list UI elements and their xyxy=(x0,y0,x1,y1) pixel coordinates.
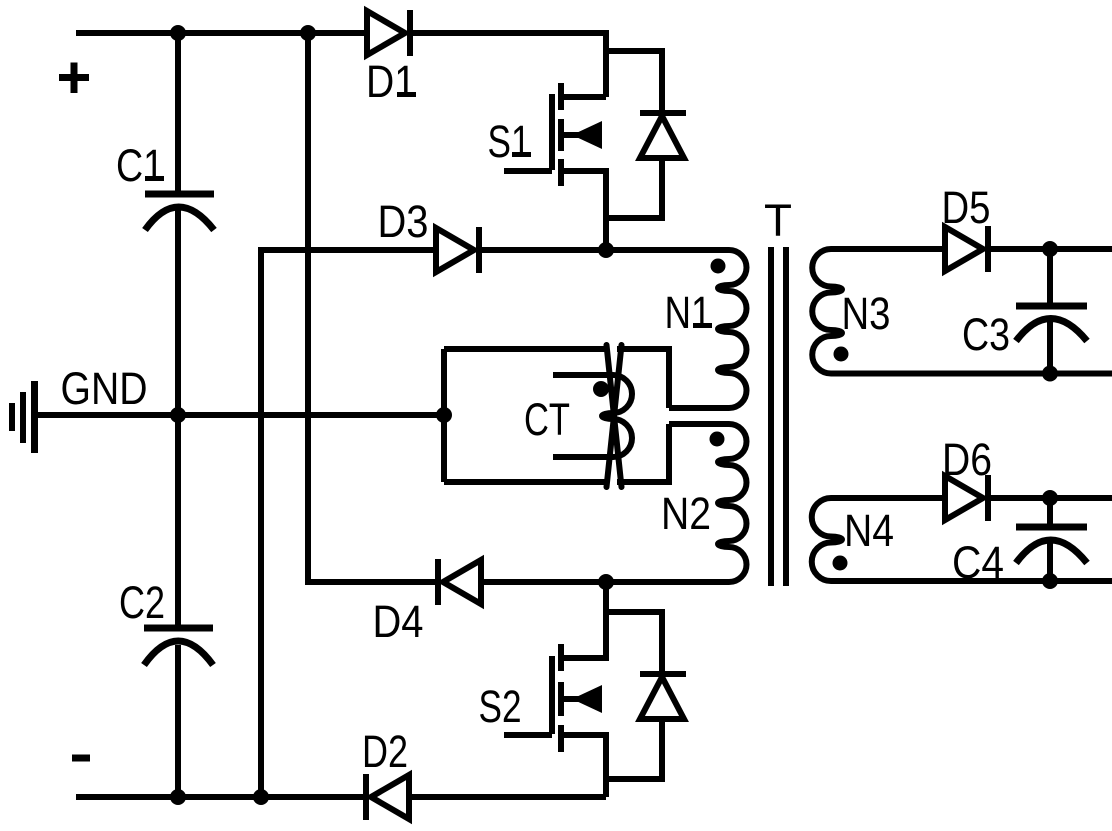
svg-text:N2: N2 xyxy=(661,488,711,539)
node junction S1 source / N1 top xyxy=(598,242,614,258)
wire D4 anode to N2/S2 node xyxy=(481,579,606,585)
node junction top rail at x308 xyxy=(300,25,316,41)
node N1 polarity dot xyxy=(711,259,726,274)
diode S1 body diode xyxy=(606,51,686,218)
node N2 polarity dot xyxy=(710,432,725,447)
node CT polarity dot xyxy=(593,381,609,397)
inductor N4 secondary winding xyxy=(812,498,1112,581)
node junction GND rail at C1/C2 xyxy=(170,407,186,423)
svg-text:S2: S2 xyxy=(479,681,522,732)
inductor CT secondary winding xyxy=(553,375,632,457)
wire bottom rail right xyxy=(409,794,606,800)
inductor N1 primary winding xyxy=(606,250,747,408)
wire N3 top lead xyxy=(831,246,944,252)
svg-text:D2: D2 xyxy=(362,726,408,777)
svg-text:S1: S1 xyxy=(488,116,531,167)
svg-text:GND: GND xyxy=(61,363,148,414)
svg-text:C1: C1 xyxy=(116,140,164,191)
capacitor C1 xyxy=(116,33,214,415)
node N4 polarity dot xyxy=(833,556,848,571)
wire vertical x308 top rail to D4 xyxy=(308,33,435,582)
svg-text:C4: C4 xyxy=(952,537,1004,588)
ground symbol xyxy=(12,381,35,453)
svg-text:C3: C3 xyxy=(962,309,1010,360)
diode D1 xyxy=(366,10,416,107)
plus terminal xyxy=(59,63,89,94)
svg-text:D1: D1 xyxy=(366,56,416,107)
svg-text:CT: CT xyxy=(524,394,570,445)
svg-text:D6: D6 xyxy=(942,434,992,485)
wire top rail to S1 drain xyxy=(410,33,606,97)
node junction C3 bottom xyxy=(1042,366,1058,382)
svg-text:N4: N4 xyxy=(844,505,894,556)
node junction top rail at C1 xyxy=(170,25,186,41)
transformer T core xyxy=(764,195,792,586)
transistor S2 xyxy=(479,582,607,797)
svg-text:D4: D4 xyxy=(373,596,424,647)
diode D6 xyxy=(942,434,992,521)
capacitor C2 xyxy=(119,415,213,797)
svg-text:N1: N1 xyxy=(665,287,712,338)
svg-text:D5: D5 xyxy=(942,182,991,233)
wire CT crossing B xyxy=(607,345,622,487)
wire bottom rail left xyxy=(76,794,363,800)
diode D4 xyxy=(373,559,482,647)
capacitor C3 xyxy=(962,249,1087,374)
diode D2 xyxy=(362,726,409,820)
node junction C3 top xyxy=(1042,241,1058,257)
node junction C4 top xyxy=(1042,490,1058,506)
wire top positive rail xyxy=(76,30,367,36)
node junction bottom rail at C2 xyxy=(170,789,186,805)
diode D5 xyxy=(942,182,991,272)
wire CT right loop lower xyxy=(617,424,669,482)
diode S2 body diode xyxy=(606,612,686,779)
wire D6 cathode to right edge xyxy=(988,495,1112,501)
wire D5 cathode to right edge xyxy=(988,246,1112,252)
inductor N2 primary winding xyxy=(606,424,747,582)
node junction N2 bottom / S2 drain / D4 xyxy=(598,574,614,590)
node junction C4 bottom xyxy=(1042,573,1058,589)
capacitor C4 xyxy=(952,498,1087,588)
node junction bottom rail at x261 xyxy=(253,789,269,805)
svg-text:N3: N3 xyxy=(842,288,891,339)
transistor S1 xyxy=(488,83,607,250)
wire vertical x261 D3 anode to bottom rail xyxy=(261,250,436,797)
svg-text:T: T xyxy=(764,195,792,246)
wire N4 top lead xyxy=(831,495,944,501)
current transformer CT box left loop xyxy=(444,349,607,482)
svg-text:C2: C2 xyxy=(119,577,165,628)
node junction GND rail at CT xyxy=(436,407,452,423)
svg-text:D3: D3 xyxy=(378,196,429,247)
wire D3 cathode to S1 source node xyxy=(479,247,606,253)
diode D3 xyxy=(378,196,480,273)
inductor N3 secondary winding xyxy=(812,249,1112,374)
minus terminal xyxy=(72,755,90,762)
wire GND rail xyxy=(34,412,444,418)
wire CT right loop upper xyxy=(617,349,669,408)
node N3 polarity dot xyxy=(834,347,849,362)
wire CT crossing A xyxy=(607,345,622,487)
